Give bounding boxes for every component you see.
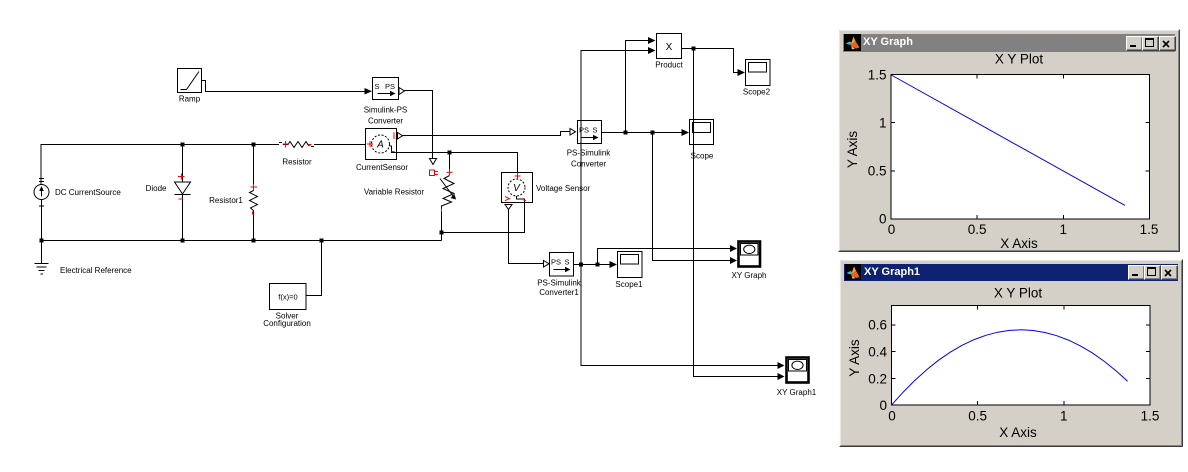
svg-text:S: S (565, 258, 570, 267)
plot axes 2 (840, 260, 1182, 446)
y tick labels (868, 318, 887, 414)
node converter output junction to xy graph (651, 131, 655, 135)
svg-text:XY Graph: XY Graph (732, 271, 767, 280)
wire resistor1 bottom (253, 211, 255, 241)
title bar active (844, 264, 1178, 281)
wire bottom bus (41, 240, 442, 242)
svg-text:X Axis: X Axis (999, 425, 1037, 440)
svg-text:Diode: Diode (146, 184, 167, 193)
minimize button (1128, 265, 1145, 280)
close button (1161, 265, 1178, 280)
matlab icon (844, 34, 861, 51)
x tick labels (888, 222, 1159, 237)
wire drop to xy graph1 input 1 (581, 265, 778, 366)
wire ground drop (41, 241, 43, 264)
svg-text:1.5: 1.5 (868, 68, 887, 83)
schematic canvas (0, 0, 840, 472)
matlab icon (845, 264, 861, 280)
wire DC source bottom column (41, 200, 43, 241)
svg-text:Y Axis: Y Axis (847, 339, 862, 377)
svg-text:S: S (375, 82, 380, 91)
wire drop to xy graph input 2 (653, 133, 731, 261)
converter U1 Simulink-PS Converter (373, 78, 405, 100)
wire top bus right segment (314, 144, 366, 146)
wire variable resistor plus drop (449, 153, 451, 170)
svg-text:f(x)=0: f(x)=0 (278, 293, 297, 302)
diode D1 (175, 174, 191, 200)
svg-text:Converter1: Converter1 (539, 288, 579, 297)
xy graph block XY Graph1 (787, 358, 809, 383)
node resistor1 bottom (252, 239, 256, 243)
port arrow into xy graph1 input 2 (778, 373, 785, 380)
svg-text:CurrentSensor: CurrentSensor (356, 163, 408, 172)
wire voltage sensor minus return (442, 203, 525, 233)
svg-text:0.6: 0.6 (868, 318, 887, 333)
xy graph block XY Graph (739, 242, 761, 267)
title bar inactive (843, 34, 1175, 52)
wire solver configuration riser (307, 241, 322, 296)
wire resistor1 top (253, 145, 255, 191)
svg-text:Y Axis: Y Axis (845, 131, 860, 169)
solver configuration block (270, 284, 307, 310)
svg-text:PS-Simulink: PS-Simulink (567, 149, 612, 158)
node resistor1 top (252, 143, 256, 147)
node solver bus junction (320, 239, 324, 243)
wire top bus left segment (41, 145, 279, 185)
wire riser to product input 2 (crosses converter block) (581, 51, 648, 265)
node diode bottom (181, 239, 185, 243)
svg-text:Scope2: Scope2 (743, 88, 771, 97)
wire ramp output (202, 81, 365, 92)
svg-text:S: S (593, 126, 598, 135)
svg-text:1: 1 (1060, 409, 1068, 424)
svg-text:PS-Simulink: PS-Simulink (537, 279, 582, 288)
data line y=1.5-x (891, 75, 1125, 205)
port arrow into product input 2 (648, 47, 656, 54)
figure window XY Graph (838, 29, 1180, 252)
port arrow into xy graph input 1 (730, 245, 737, 252)
node diode top (181, 143, 185, 147)
svg-text:0.5: 0.5 (868, 164, 887, 179)
node variable resistor bottom junction (440, 231, 444, 235)
wire voltage sensor PS output to converter1 (509, 209, 544, 264)
wire product output to scope2 (682, 49, 738, 73)
svg-text:Scope: Scope (691, 152, 714, 161)
title text (863, 36, 913, 48)
maximize button (1142, 36, 1159, 51)
scope block Scope2 (746, 60, 771, 86)
svg-text:Converter: Converter (368, 117, 403, 126)
svg-text:Scope1: Scope1 (615, 280, 643, 289)
wire simulink-ps converter to variable resistor R port (405, 91, 433, 159)
port arrow into product input 1 (648, 37, 656, 44)
svg-text:0.2: 0.2 (868, 372, 887, 387)
svg-text:0.5: 0.5 (968, 222, 987, 237)
node converter1 output junction A (579, 263, 583, 267)
converter U3 PS-Simulink Converter1 (550, 253, 574, 277)
svg-text:X Axis: X Axis (1000, 236, 1038, 251)
svg-text:A: A (376, 140, 384, 151)
variable resistor R2 (430, 159, 457, 212)
wire converter1 output to scope1 (574, 264, 610, 266)
svg-text:Resistor: Resistor (282, 158, 312, 167)
port arrow hollow into ps-simulink converter1 (544, 261, 550, 268)
wire node junction step to bus (441, 233, 443, 241)
node source bottom (40, 239, 44, 243)
port arrow into simulink-ps converter (365, 88, 373, 95)
svg-text:Variable Resistor: Variable Resistor (364, 188, 425, 197)
resistor Resistor (horizontal) (279, 141, 314, 148)
wire ps-simulink converter output to scope (602, 132, 682, 134)
svg-text:Voltage Sensor: Voltage Sensor (536, 184, 591, 193)
svg-text:0.5: 0.5 (968, 409, 987, 424)
svg-text:0: 0 (888, 409, 896, 424)
wire variable resistor bottom (441, 212, 443, 233)
svg-text:PS: PS (385, 82, 395, 91)
close button (1159, 36, 1176, 51)
minimize button (1126, 36, 1143, 51)
svg-text:Configuration: Configuration (263, 319, 311, 328)
multiplier block Product (657, 34, 682, 59)
port arrow into scope (682, 129, 690, 136)
node converter1 output junction B (596, 263, 600, 267)
svg-text:1: 1 (1060, 222, 1068, 237)
svg-text:XY Graph1: XY Graph1 (777, 388, 817, 397)
figure window XY Graph1 (839, 259, 1183, 447)
svg-text:0: 0 (879, 398, 887, 413)
port arrow into xy graph1 input 1 (778, 362, 785, 369)
ramp source block (178, 69, 202, 93)
svg-text:0: 0 (888, 222, 896, 237)
svg-text:DC CurrentSource: DC CurrentSource (55, 188, 121, 197)
svg-text:X Y Plot: X Y Plot (995, 52, 1044, 67)
wire riser to product input 1 (626, 41, 649, 133)
scope block Scope1 (618, 252, 643, 278)
wire current sensor I output to ps-simulink converter (402, 132, 571, 136)
port arrow into scope1 (610, 261, 618, 268)
DC current source I1 (34, 179, 49, 207)
title text (864, 266, 920, 278)
converter U2 PS-Simulink Converter (578, 121, 602, 144)
ground electrical reference symbol (35, 264, 49, 275)
port arrow hollow into ps-simulink converter (570, 129, 576, 136)
port arrow into xy graph input 2 (730, 257, 737, 264)
svg-text:Simulink-PS: Simulink-PS (364, 106, 408, 115)
node variable resistor plus junction (448, 151, 452, 155)
wire riser to xy graph input 1 (598, 249, 731, 265)
node product output junction (692, 47, 696, 51)
svg-text:Converter: Converter (571, 160, 606, 169)
voltage sensor block (502, 173, 533, 210)
y tick labels (868, 68, 887, 227)
svg-text:Resistor1: Resistor1 (209, 196, 243, 205)
svg-text:Product: Product (655, 61, 683, 70)
svg-text:Ramp: Ramp (179, 95, 201, 104)
data curve y=x(1.5-x) (891, 330, 1127, 405)
wire diode bottom (182, 195, 184, 241)
svg-text:X: X (666, 42, 673, 53)
wire diode top (182, 145, 184, 182)
svg-text:1.5: 1.5 (1140, 222, 1159, 237)
svg-text:0: 0 (879, 212, 887, 227)
svg-text:1: 1 (879, 116, 887, 131)
svg-text:PS: PS (551, 258, 561, 267)
scope block Scope (690, 120, 714, 145)
svg-text:1.5: 1.5 (1141, 409, 1160, 424)
node converter output junction to product (624, 131, 628, 135)
plot axes 1 (839, 30, 1179, 251)
wire current sensor minus to voltage sensor plus (397, 153, 518, 173)
svg-text:Electrical Reference: Electrical Reference (60, 266, 132, 275)
current sensor block (366, 129, 403, 160)
maximize button (1144, 265, 1161, 280)
x tick labels (888, 409, 1159, 424)
resistor Resistor1 (vertical) (250, 184, 258, 215)
svg-text:0.4: 0.4 (868, 345, 887, 360)
svg-text:X Y Plot: X Y Plot (994, 286, 1043, 301)
wire product output drop to xy graph1 input 2 (crosses scope block) (694, 49, 778, 377)
port arrow into scope2 (738, 69, 746, 76)
